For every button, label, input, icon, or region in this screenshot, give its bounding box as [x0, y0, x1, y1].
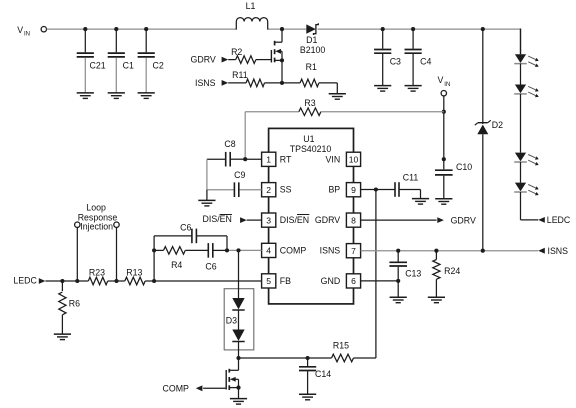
capacitor C4: [405, 29, 422, 85]
node VIN mid terminal: [441, 91, 446, 96]
wire pin4 to comp node: [227, 249, 262, 251]
wire injection right to R13: [117, 280, 125, 282]
junction dot C4: [411, 27, 415, 31]
wire C8 C9 to ground: [206, 190, 208, 200]
pin number 8: [351, 215, 356, 225]
connector arrow ISNS left: [222, 80, 229, 86]
svg-text:C6: C6: [205, 262, 216, 272]
junction dot FB R4 node: [152, 279, 156, 283]
junction dot C6 top branch: [225, 248, 229, 252]
wire top rail from L1 to D1 anode: [268, 28, 307, 30]
ground below R6: [54, 334, 71, 340]
junction dot R4 branch left: [152, 248, 156, 252]
label Loop: [86, 203, 106, 213]
svg-text:10: 10: [349, 155, 359, 165]
connector arrow LEDC left: [39, 278, 46, 284]
ground below C13: [390, 297, 407, 303]
junction dot Q2 source: [236, 386, 240, 390]
pin name COMP: [280, 245, 307, 255]
junction dot C1: [114, 27, 118, 31]
wire ISNS rail: [361, 250, 539, 252]
svg-text:R1: R1: [306, 62, 317, 72]
transistor Q2 drain lead: [229, 358, 238, 370]
label R6: [69, 298, 80, 308]
svg-text:R4: R4: [171, 260, 182, 270]
pin 6 box: [346, 274, 360, 288]
resistor R6: [59, 281, 66, 315]
connector arrow DIS/EN: [240, 217, 247, 223]
resistor R2: [236, 56, 256, 64]
LED D7 wire above: [520, 162, 522, 183]
capacitor C11: [395, 182, 399, 197]
label LEDC left: [13, 276, 37, 286]
label DIS/EN left: [203, 214, 232, 224]
svg-text:1: 1: [266, 155, 271, 165]
wire pin1 to C8 junction: [245, 158, 261, 160]
svg-text:C21: C21: [90, 61, 106, 71]
node VIN input terminal: [41, 27, 46, 32]
op-amp U1 TPS40210 body: [269, 128, 354, 304]
label GDRV right: [451, 216, 476, 226]
svg-text:5: 5: [266, 276, 271, 286]
pin 4 box: [262, 243, 276, 257]
label R13: [126, 268, 142, 278]
connector arrow GDRV left: [222, 57, 229, 63]
svg-text:C10: C10: [456, 162, 472, 172]
wire D3 to Q2 drain: [238, 342, 240, 359]
label R24: [444, 266, 460, 276]
wire R24 to ground: [435, 279, 437, 297]
svg-text:IN: IN: [444, 82, 450, 88]
svg-text:C2: C2: [153, 61, 164, 71]
pin number 3: [266, 215, 271, 225]
label TPS40210: [290, 144, 332, 154]
svg-text:B2100: B2100: [300, 45, 326, 55]
wire top rail from D1 cathode to LED corner: [318, 28, 521, 30]
svg-text:8: 8: [351, 215, 356, 225]
pin 2 box: [262, 183, 276, 197]
transistor Q1 drain lead: [275, 29, 282, 42]
ground below C1: [108, 93, 125, 99]
wire R6 to ground: [61, 315, 63, 334]
pin number 6: [351, 276, 356, 286]
wire R4 to C6 mid: [185, 249, 208, 251]
junction dot BP: [374, 187, 378, 191]
wire R2 to Q1 gate: [256, 59, 272, 61]
pin 9 box: [346, 183, 360, 197]
label ISNS right: [548, 246, 569, 256]
wire D2 bottom: [482, 134, 484, 251]
transistor Q2 bulk arrow: [230, 377, 239, 388]
LED D4 emission arrows: [528, 56, 539, 67]
label ISNS left: [195, 78, 216, 88]
wire R11 to Q1 source node: [265, 82, 283, 84]
svg-text:C6: C6: [180, 223, 191, 233]
ground below C10: [435, 199, 452, 205]
resistor R4: [164, 247, 186, 255]
wire pin6 to C13: [361, 280, 399, 282]
wire pin8 to GDRV arrow: [361, 219, 437, 221]
svg-text:6: 6: [351, 276, 356, 286]
svg-text:ISNS: ISNS: [320, 246, 341, 256]
label LEDC right: [547, 215, 571, 225]
diode D2 zener: [475, 120, 491, 134]
svg-text:4: 4: [266, 246, 271, 256]
transistor Q1 gate line: [270, 50, 272, 63]
label C3: [390, 57, 401, 67]
junction dot injection right: [114, 279, 118, 283]
pin number 5: [266, 276, 271, 286]
pin name DIS/EN: [280, 215, 310, 226]
junction dot C14: [306, 356, 310, 360]
label C21: [90, 61, 106, 71]
svg-text:ISNS: ISNS: [195, 78, 216, 88]
LED D4: [514, 54, 527, 63]
wire R6 node to injection left: [62, 280, 77, 282]
wire GDRV to R2: [228, 59, 236, 61]
junction dot C3: [381, 27, 385, 31]
wire R15 to BP vertical: [354, 190, 376, 359]
capacitor C2: [138, 29, 155, 93]
label C10: [456, 162, 472, 172]
ground below C11: [412, 199, 429, 205]
junction dot pin10 VIN: [442, 157, 446, 161]
wire C6 top branch: [154, 236, 227, 251]
svg-text:Injection: Injection: [80, 222, 113, 232]
svg-text:9: 9: [351, 185, 356, 195]
label C1: [123, 61, 134, 71]
node injection terminal left: [75, 222, 80, 227]
svg-text:TPS40210: TPS40210: [290, 144, 332, 154]
pin 10 box: [346, 152, 360, 166]
wire LED string drop: [520, 29, 522, 55]
connector arrow ISNS right: [538, 248, 545, 254]
junction dot C8 R3 pin1: [243, 157, 247, 161]
transistor Q2 gate line: [225, 370, 227, 390]
LED D5: [514, 85, 527, 94]
wire R1 to ground: [319, 83, 337, 94]
capacitor C21: [77, 29, 94, 93]
junction dot R11 R1: [280, 81, 284, 85]
wire R4 branch left: [154, 249, 163, 251]
svg-text:COMP: COMP: [163, 384, 190, 394]
label D2: [492, 120, 503, 130]
wire FB node to pin5: [154, 280, 262, 282]
LED D7 emission arrows: [528, 185, 539, 196]
label R1: [306, 62, 317, 72]
label U1: [303, 134, 314, 144]
transistor Q1 source lead: [275, 59, 282, 61]
resistor R23: [88, 277, 107, 285]
connector arrow GDRV right: [437, 217, 444, 223]
wire D3 middle: [238, 310, 240, 330]
ground below C2: [138, 93, 155, 99]
pin number 1: [266, 155, 271, 165]
pin 7 box: [346, 244, 360, 258]
LED D5 wire above: [520, 64, 522, 85]
pin name VIN: [326, 154, 341, 164]
svg-text:LEDC: LEDC: [547, 215, 571, 225]
label C14: [315, 369, 331, 379]
svg-text:IN: IN: [24, 32, 30, 38]
label C13: [405, 268, 421, 278]
wire COMP arrow to Q2 gate: [203, 387, 226, 389]
wire C6 mid to comp node: [213, 249, 227, 251]
svg-text:C14: C14: [315, 369, 331, 379]
svg-text:FB: FB: [280, 276, 291, 286]
svg-text:L1: L1: [246, 1, 256, 11]
svg-text:R13: R13: [126, 268, 142, 278]
pin number 2: [266, 185, 271, 195]
pin 3 box: [262, 213, 276, 227]
label R23: [89, 268, 105, 278]
label Response: [78, 212, 118, 222]
ground below Q2: [230, 399, 247, 405]
wire R13 to R4 node: [145, 280, 154, 282]
connector arrow COMP: [196, 385, 203, 391]
label C6 mid: [205, 262, 216, 272]
resistor R11: [246, 79, 264, 87]
wire DIS/EN arrow to pin3: [247, 219, 262, 221]
label D1: [306, 35, 317, 45]
svg-text:DIS/EN: DIS/EN: [203, 214, 232, 224]
wire injection left down: [76, 227, 78, 281]
label Injection: [80, 222, 113, 232]
pin number 7: [351, 246, 356, 256]
svg-text:COMP: COMP: [280, 245, 307, 255]
pin name BP: [328, 185, 340, 195]
wire C11 to ground: [399, 190, 421, 199]
pin number 9: [351, 185, 356, 195]
resistor R13: [125, 277, 145, 285]
svg-text:R6: R6: [69, 298, 80, 308]
svg-text:C1: C1: [123, 61, 134, 71]
svg-text:C11: C11: [403, 173, 419, 183]
svg-text:R24: R24: [444, 266, 460, 276]
junction dot pin6 C13: [396, 279, 400, 283]
svg-text:C3: C3: [390, 57, 401, 67]
label GDRV left: [191, 54, 216, 64]
resistor R24: [433, 251, 440, 280]
pin 1 box: [262, 152, 276, 166]
junction dot C13: [396, 249, 400, 253]
svg-text:RT: RT: [280, 154, 292, 164]
svg-text:3: 3: [266, 215, 271, 225]
ground below C9: [198, 200, 215, 206]
svg-text:7: 7: [351, 246, 356, 256]
pin name FB: [280, 276, 291, 286]
wire D2 top: [482, 29, 484, 124]
svg-text:V: V: [438, 75, 444, 85]
inductor L1: [236, 18, 267, 30]
junction dot R6: [60, 279, 64, 283]
wire comp node to D3: [238, 250, 240, 298]
diode D3 top: [232, 298, 244, 310]
wire ISNS to R11: [228, 82, 246, 84]
capacitor C10: [435, 170, 453, 198]
connector arrow LEDC right: [538, 217, 545, 223]
svg-text:D3: D3: [226, 316, 237, 326]
capacitor C8: [207, 152, 245, 167]
svg-text:Loop: Loop: [86, 203, 106, 213]
svg-text:GDRV: GDRV: [191, 54, 216, 64]
wire LED string bottom: [521, 192, 539, 220]
wire C9 branch: [207, 159, 262, 190]
label COMP bottom: [163, 384, 190, 394]
label L1: [246, 1, 256, 11]
junction dot D3 branch: [236, 248, 240, 252]
resistor R15: [332, 354, 354, 362]
label R4: [171, 260, 182, 270]
svg-text:ISNS: ISNS: [548, 246, 569, 256]
label C9: [234, 170, 245, 180]
pin name RT: [280, 154, 292, 164]
junction dot R3 VIN: [442, 110, 446, 114]
svg-text:D2: D2: [492, 120, 503, 130]
svg-text:SS: SS: [280, 185, 292, 195]
svg-text:BP: BP: [328, 185, 340, 195]
pin name SS: [280, 185, 292, 195]
wire injection left to R23: [77, 280, 88, 282]
transistor Q2 source lead: [229, 387, 238, 389]
ground below C21: [77, 93, 94, 99]
svg-text:R15: R15: [333, 341, 349, 351]
resistor R3: [299, 108, 321, 116]
LED D5 emission arrows: [528, 86, 539, 97]
svg-text:R11: R11: [232, 70, 248, 80]
junction dot injection left: [75, 279, 79, 283]
junction dot C21: [83, 27, 87, 31]
LED D6 emission arrows: [528, 155, 539, 166]
wire Q2 source to ground: [238, 388, 240, 399]
junction dot D2 top: [481, 27, 485, 31]
pin number 4: [266, 246, 271, 256]
capacitor C1: [108, 29, 125, 93]
diode D3 box: [224, 289, 254, 350]
svg-text:D1: D1: [306, 35, 317, 45]
wire source node to R1: [282, 82, 300, 84]
pin 5 box: [262, 274, 276, 288]
svg-text:V: V: [17, 25, 23, 35]
svg-text:GND: GND: [321, 276, 341, 286]
svg-text:C13: C13: [405, 268, 421, 278]
svg-text:C4: C4: [420, 57, 431, 67]
wire VIN terminal down: [443, 96, 445, 169]
LED D4 wire above: [520, 29, 522, 55]
ground below C3: [374, 86, 391, 92]
capacitor C13: [389, 251, 407, 297]
junction dot Q2 drain node: [236, 356, 240, 360]
wire LEDC to R6 node: [45, 280, 62, 282]
wire injection right down: [116, 227, 118, 281]
label R15: [333, 341, 349, 351]
label R11: [232, 70, 248, 80]
pin name GDRV: [315, 215, 340, 225]
svg-text:C8: C8: [224, 139, 235, 149]
label D3: [226, 316, 237, 326]
junction dot Q1 drain: [280, 27, 284, 31]
svg-text:GDRV: GDRV: [315, 215, 340, 225]
svg-text:U1: U1: [303, 134, 314, 144]
ground below C14: [299, 394, 316, 400]
svg-text:R23: R23: [89, 268, 105, 278]
wire R3 line left segment: [245, 112, 299, 160]
wire R4 branch to FB rail: [153, 250, 155, 281]
wire pin9 to BP node: [361, 189, 376, 191]
svg-text:R3: R3: [304, 98, 315, 108]
ground below C4: [405, 86, 422, 92]
svg-text:LEDC: LEDC: [13, 276, 37, 286]
wire BP node to C11: [376, 189, 395, 191]
pin name GND: [321, 276, 341, 286]
node injection terminal right: [114, 222, 119, 227]
label VIN input: [17, 25, 30, 38]
svg-text:C9: C9: [234, 170, 245, 180]
junction dot Q1 source: [280, 58, 284, 62]
svg-text:R2: R2: [231, 47, 242, 57]
resistor R1: [300, 79, 319, 87]
LED D6 wire above: [520, 94, 522, 153]
wire Q2 drain node to C14: [239, 357, 308, 359]
transistor Q1 channel: [274, 41, 276, 63]
label C11: [403, 173, 419, 183]
label B2100: [300, 45, 326, 55]
junction dot C2: [144, 27, 148, 31]
label C6 top: [180, 223, 191, 233]
capacitor C14: [299, 358, 316, 394]
label R2: [231, 47, 242, 57]
wire R3 to VIN vertical: [321, 111, 444, 113]
label C4: [420, 57, 431, 67]
transistor Q1 bulk arrow: [275, 49, 282, 61]
transistor Q2 channel: [228, 369, 230, 390]
pin name ISNS: [320, 246, 341, 256]
svg-text:DIS/EN: DIS/EN: [280, 215, 309, 225]
wire Q1 source down: [281, 60, 283, 83]
pin number 10: [349, 155, 359, 165]
capacitor C6 mid: [208, 243, 213, 258]
LED D7: [514, 183, 527, 192]
label VIN mid: [438, 75, 451, 88]
svg-text:2: 2: [266, 185, 271, 195]
svg-text:GDRV: GDRV: [451, 216, 476, 226]
capacitor C9: [234, 182, 238, 197]
pin 8 box: [346, 213, 360, 227]
label R3: [304, 98, 315, 108]
junction dot D2 bottom: [481, 249, 485, 253]
label C2: [153, 61, 164, 71]
wire R23 to injection right: [108, 280, 117, 282]
capacitor C3: [374, 29, 391, 85]
ground below R1: [329, 94, 346, 100]
wire top rail from VIN terminal to L1: [47, 28, 237, 30]
ground below R24: [428, 297, 445, 303]
diode D3 bottom: [232, 330, 244, 342]
LED D6: [514, 153, 527, 162]
wire C14 to R15: [308, 357, 332, 359]
capacitor C6 top: [192, 229, 197, 244]
junction dot R24: [434, 249, 438, 253]
diode D1 B2100: [306, 23, 318, 35]
label C8: [224, 139, 235, 149]
svg-text:VIN: VIN: [326, 154, 341, 164]
